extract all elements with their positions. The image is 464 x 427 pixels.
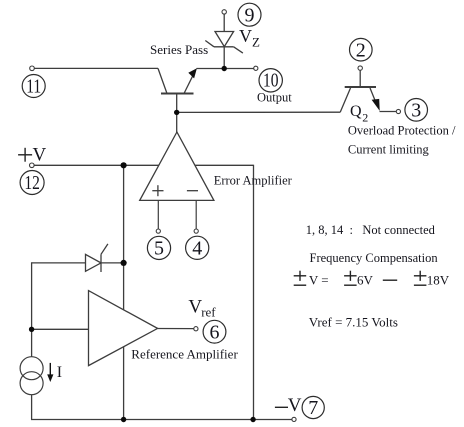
svg-text:Z: Z xyxy=(252,35,260,50)
wire reference amp input xyxy=(32,328,89,330)
wire middle vertical (+V drop through diode node) xyxy=(123,165,125,419)
svg-text:6V: 6V xyxy=(357,273,374,288)
current source arrow xyxy=(47,363,53,382)
svg-text:V: V xyxy=(288,395,302,416)
wire zener bottom lead xyxy=(223,47,225,69)
note supply range +/-V = +/-6V - +/-18V xyxy=(294,271,450,288)
wire output line (emitter to pin10) xyxy=(197,68,254,70)
wire current limit line to Q2 xyxy=(177,111,341,113)
node: junction +V rail xyxy=(121,162,127,168)
label +V xyxy=(18,144,46,165)
wire zener top lead xyxy=(223,14,225,31)
svg-text:7: 7 xyxy=(308,397,318,419)
label -V xyxy=(275,395,302,416)
wire pin11 to series pass collector xyxy=(34,67,158,69)
current source I (two circles) xyxy=(20,357,43,395)
node: junction -V rail left xyxy=(121,417,126,422)
transistor Q2: base lead to pin2 xyxy=(359,70,361,87)
terminal pin 12 xyxy=(30,163,35,168)
transistor Q2: base bar xyxy=(345,86,376,88)
svg-text:18V: 18V xyxy=(427,273,450,288)
wire series pass base to error amp output xyxy=(176,94,178,133)
label VZ xyxy=(239,26,260,50)
svg-text:V =: V = xyxy=(309,273,329,288)
svg-text:Frequency Compensation: Frequency Compensation xyxy=(310,251,439,265)
svg-text:V: V xyxy=(239,26,252,46)
svg-text:Overload Protection /: Overload Protection / xyxy=(348,123,456,137)
pin number 2 xyxy=(350,38,373,61)
pin number 6 xyxy=(203,320,226,343)
wire left vertical lower xyxy=(31,395,33,420)
terminal pin 2 xyxy=(358,66,362,70)
wire right vertical to -V xyxy=(253,165,255,420)
transistor Q2: collector diagonal xyxy=(340,88,350,112)
node: junction ref amp input xyxy=(29,327,34,332)
svg-text:6: 6 xyxy=(210,321,220,343)
pin number 12 xyxy=(20,171,44,195)
pin number 10 xyxy=(259,69,282,92)
pin number 7 xyxy=(302,396,324,419)
label Q2 xyxy=(350,103,368,125)
svg-text:Q: Q xyxy=(350,103,362,120)
wire +V rail from pin12 xyxy=(34,164,254,166)
transistor Q1 series pass: base bar xyxy=(161,93,194,95)
terminal pin 6 xyxy=(194,327,198,331)
svg-text:4: 4 xyxy=(192,237,202,259)
pin number 11 xyxy=(22,75,45,98)
node: junction diode cathode xyxy=(121,260,127,266)
svg-text:V: V xyxy=(33,144,47,165)
pin number 5 xyxy=(147,236,170,259)
pin number 4 xyxy=(186,236,209,259)
transistor Q1 series pass: collector diagonal xyxy=(158,68,167,93)
op-amp error amplifier triangle xyxy=(140,132,214,200)
terminal pin 4 xyxy=(194,229,198,233)
transistor Q1 series pass: emitter with arrow xyxy=(184,68,197,93)
svg-text:ref: ref xyxy=(201,304,216,319)
svg-text:11: 11 xyxy=(26,76,41,98)
wire reference amp output xyxy=(158,328,194,330)
terminal pin 7 xyxy=(292,417,296,421)
terminal pin 5 xyxy=(156,229,160,233)
wire diode anode lead xyxy=(32,262,86,264)
wire left vertical upper xyxy=(31,262,33,357)
terminal pin 3 xyxy=(396,109,400,113)
pin number 9 xyxy=(238,3,261,26)
zener diode reference xyxy=(86,244,108,272)
wire pin4 input stub xyxy=(195,200,197,229)
op-amp reference amplifier triangle xyxy=(89,291,158,366)
pin number 3 xyxy=(405,99,428,122)
error amp plus input symbol xyxy=(152,185,163,196)
node: junction base/current-limit xyxy=(174,110,179,115)
node: junction -V rail right xyxy=(250,417,255,422)
svg-text:Series Pass: Series Pass xyxy=(150,42,208,57)
svg-text:Error Amplifier: Error Amplifier xyxy=(214,174,293,188)
label Vref xyxy=(188,297,216,320)
transistor Q2: emitter with arrow xyxy=(370,88,396,112)
svg-text:2: 2 xyxy=(356,39,366,61)
wire pin5 input stub xyxy=(157,200,159,229)
svg-text:Reference Amplifier: Reference Amplifier xyxy=(131,347,238,362)
svg-text:I: I xyxy=(57,364,62,381)
svg-text:Output: Output xyxy=(257,90,292,104)
wire diode cathode lead xyxy=(101,262,124,264)
terminal pin 11 xyxy=(30,66,35,71)
svg-text:10: 10 xyxy=(263,70,279,92)
svg-text:Vref = 7.15 Volts: Vref = 7.15 Volts xyxy=(309,314,398,329)
svg-text:9: 9 xyxy=(245,4,255,26)
svg-text:1, 8, 14 : Not connected: 1, 8, 14 : Not connected xyxy=(306,223,436,237)
wire -V bottom rail xyxy=(31,419,292,421)
svg-text:3: 3 xyxy=(411,99,421,121)
node: junction output/zener xyxy=(222,66,227,71)
error amp minus input symbol xyxy=(187,190,198,192)
zener diode VZ xyxy=(205,32,243,54)
svg-text:5: 5 xyxy=(154,238,164,260)
svg-text:12: 12 xyxy=(24,172,40,194)
terminal pin 10 xyxy=(254,66,258,70)
terminal pin 9 xyxy=(222,10,226,14)
svg-text:Current limiting: Current limiting xyxy=(348,142,430,156)
